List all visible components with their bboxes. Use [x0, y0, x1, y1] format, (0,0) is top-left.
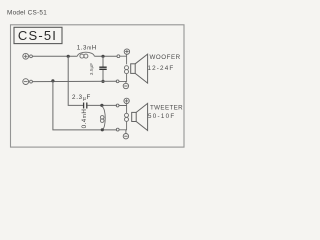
wire: L1 to woofer terminal: [94, 55, 117, 57]
input terminal minus: [23, 79, 29, 85]
svg-text:WOOFER: WOOFER: [150, 54, 181, 61]
tweeter terminal connector circle (plus): [116, 104, 119, 107]
tweeter voice coil: [125, 113, 129, 121]
tweeter minus polarity symbol: [123, 130, 128, 139]
title box CS-51: [14, 27, 62, 43]
svg-text:0.4mH: 0.4mH: [81, 109, 88, 129]
svg-text:TWEETER: TWEETER: [150, 105, 183, 112]
tweeter speaker symbol: [132, 103, 148, 130]
wire: woofer minus lead: [119, 74, 127, 82]
svg-text:50-10F: 50-10F: [148, 113, 175, 120]
woofer terminal connector circle (plus): [117, 55, 120, 58]
woofer speaker symbol: [131, 54, 148, 83]
inductor L1 1.3mH (woofer series coil): [77, 52, 94, 58]
node: L2 top junction: [100, 104, 103, 107]
wire: tweeter return drop: [53, 81, 117, 130]
page background: [0, 0, 200, 159]
capacitor C2 2.3uF (tweeter series): [84, 103, 87, 109]
svg-text:3.5µF: 3.5µF: [89, 63, 95, 75]
node: C1 top junction: [101, 55, 104, 58]
svg-text:1.3mH: 1.3mH: [77, 45, 97, 52]
woofer voice coil: [125, 66, 129, 74]
schematic border frame: [11, 25, 185, 147]
svg-text:12-24F: 12-24F: [148, 65, 175, 72]
wire: C2 to tweeter terminal: [87, 104, 117, 106]
wire: plus rail to inductor L1: [33, 55, 78, 57]
node: minus rail / tweeter return junction: [51, 79, 54, 82]
inductor L2 0.4mH (tweeter shunt coil): [100, 105, 105, 130]
capacitor C1 (woofer shunt): [99, 56, 106, 81]
svg-text:Model CS-51: Model CS-51: [7, 9, 47, 16]
wire: tweeter plus lead: [119, 104, 127, 114]
wire: tweeter feed drop: [68, 56, 83, 105]
input terminal plus: [23, 53, 29, 59]
svg-text:2.3µF: 2.3µF: [72, 94, 91, 102]
svg-text:CS-5I: CS-5I: [18, 28, 57, 43]
node: C1 bottom junction: [101, 80, 104, 83]
wire: minus rail: [33, 80, 118, 82]
node: plus rail / tweeter feed junction: [67, 55, 70, 58]
wire: woofer plus lead: [120, 54, 127, 64]
tweeter plus polarity symbol: [124, 98, 129, 103]
woofer terminal connector circle (minus): [116, 80, 119, 83]
node: L2 bottom junction: [101, 128, 104, 131]
input plus connector circle: [30, 55, 33, 58]
woofer plus polarity symbol: [124, 49, 129, 54]
wire: tweeter minus lead: [119, 121, 127, 129]
tweeter terminal connector circle (minus): [116, 128, 119, 131]
woofer minus polarity symbol: [123, 81, 128, 88]
input minus connector circle: [30, 80, 33, 83]
